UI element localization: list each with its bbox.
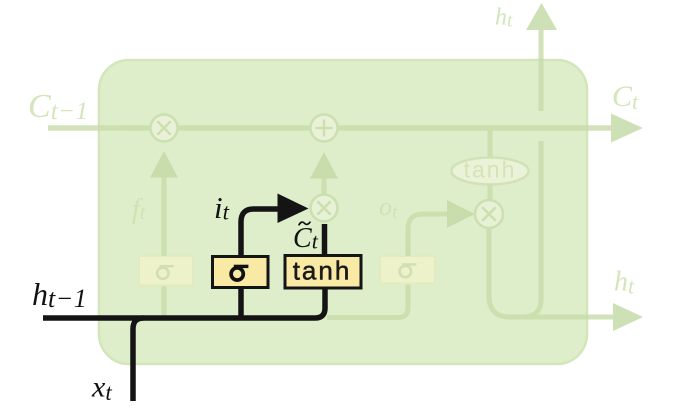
output gate bottom wire — [327, 283, 408, 318]
input sigma label — [231, 266, 248, 280]
h_t up branch wire lower — [523, 141, 541, 317]
svg-text:ht: ht — [495, 5, 513, 32]
add circle — [311, 115, 338, 142]
output multiply circle — [475, 200, 503, 228]
svg-text:tanh: tanh — [293, 256, 352, 286]
candidate multiply circle — [311, 195, 338, 222]
add arrowhead — [310, 152, 338, 179]
C~_t label tilde — [299, 222, 310, 225]
forget branch wire — [162, 285, 167, 318]
output gate arrow wire — [408, 214, 448, 256]
input sigma box — [213, 257, 269, 288]
input wire from h_{t-1} into tanh box — [43, 285, 325, 318]
h_t right arrowhead — [613, 303, 643, 331]
svg-text:ht−1: ht−1 — [32, 276, 87, 313]
i_t arrowhead — [278, 194, 309, 224]
x_t wire — [133, 318, 144, 401]
forget arrowhead — [150, 151, 178, 178]
candidate to multiply wire — [322, 224, 328, 258]
output arrowhead — [447, 200, 475, 228]
wire candidate circle to add arrow — [322, 178, 327, 194]
svg-text:tanh: tanh — [464, 157, 517, 183]
h output down-right wire — [489, 228, 614, 317]
tanh oval to multiply wire — [488, 185, 493, 201]
cell state line C — [48, 125, 612, 131]
forget gate multiply circle — [151, 115, 178, 142]
h_t up branch wire upper — [539, 29, 544, 111]
input gate arrow wire — [241, 209, 279, 258]
forget arrow wire — [162, 177, 167, 256]
C_t arrowhead — [611, 114, 643, 143]
forget sigma box — [139, 256, 193, 286]
output sigma box — [380, 256, 435, 284]
svg-text:ht: ht — [614, 267, 635, 299]
svg-text:Ct: Ct — [612, 80, 639, 114]
input gate branch wire — [238, 285, 244, 318]
cell state to tanh branch wire — [488, 130, 493, 158]
forget sigma label — [157, 266, 174, 279]
output sigma label — [400, 265, 417, 278]
tanh oval — [452, 158, 529, 185]
candidate tanh box — [285, 256, 361, 289]
svg-text:Ct: Ct — [293, 223, 319, 254]
svg-text:xt: xt — [91, 371, 112, 406]
svg-text:Ct−1: Ct−1 — [28, 88, 89, 125]
cell body rounded rect — [99, 60, 587, 364]
h_t up arrowhead — [526, 3, 557, 30]
